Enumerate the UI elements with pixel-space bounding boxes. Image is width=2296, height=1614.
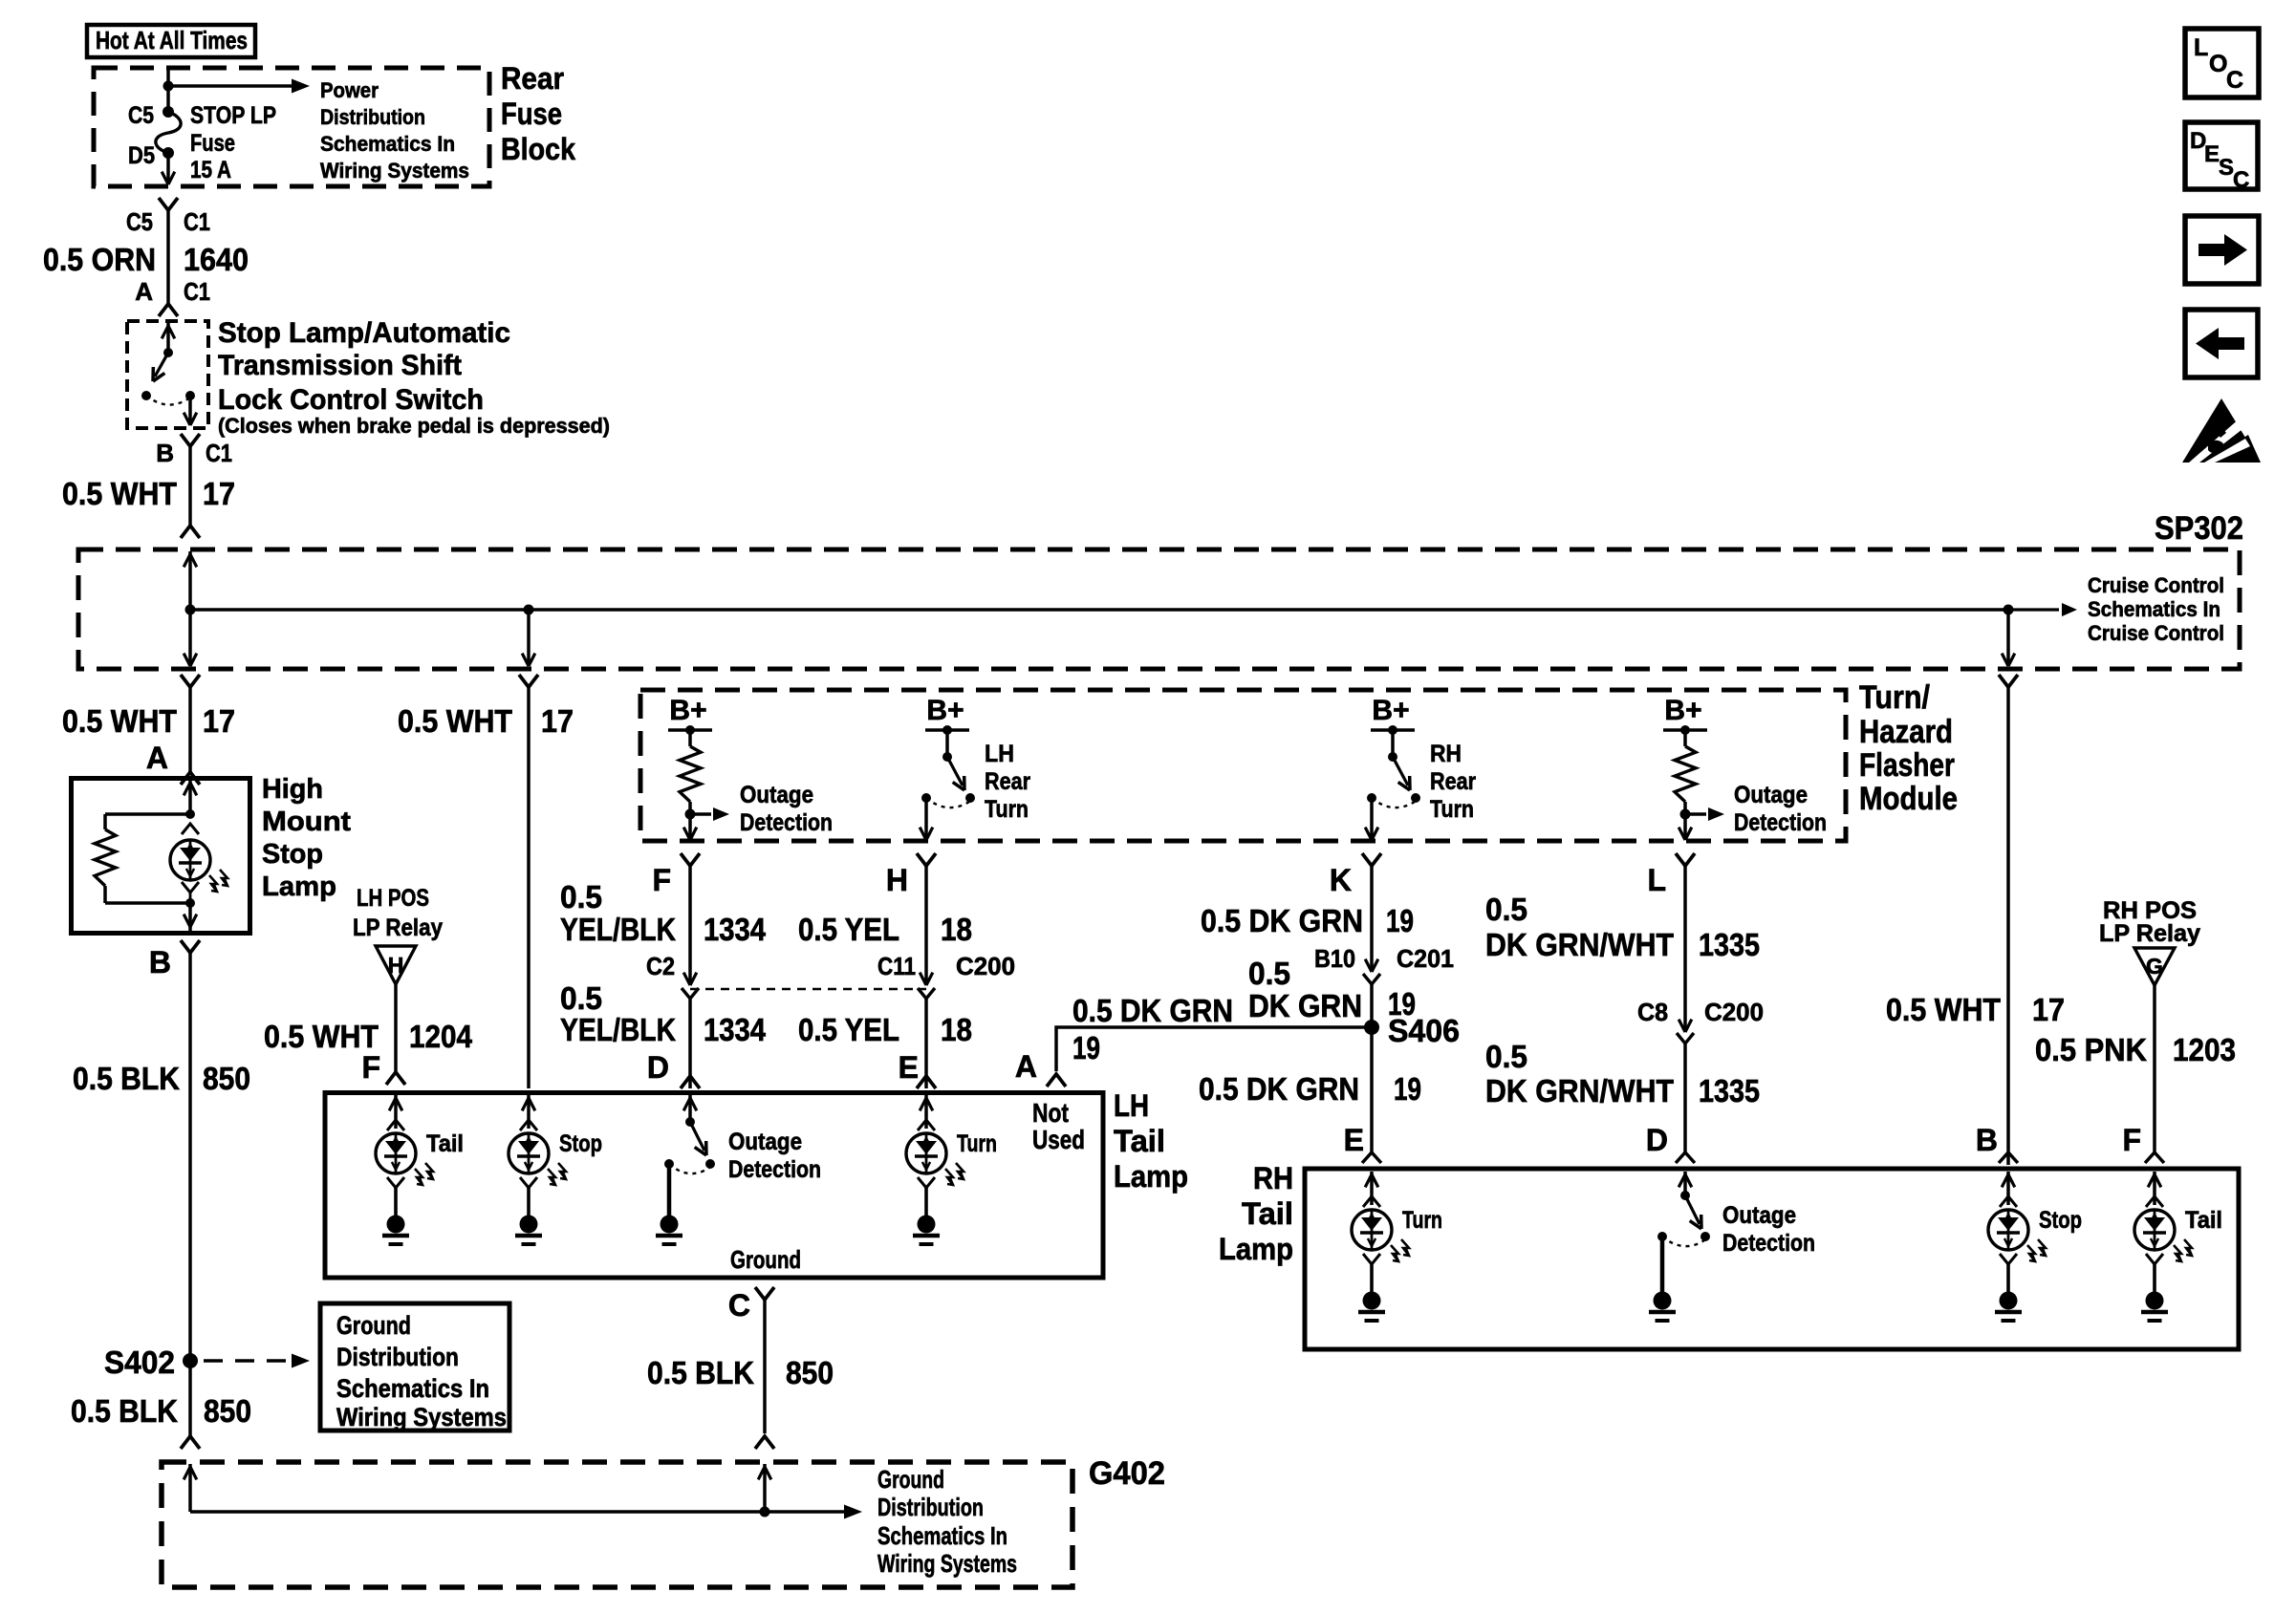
connector module pin L — [1676, 853, 1695, 866]
svg-text:B: B — [1976, 1123, 1998, 1157]
wire: SP302 to LH stop bulb — [527, 687, 531, 1088]
connector pin A high mount lamp — [181, 772, 200, 785]
connector C200 (vee half) — [682, 988, 699, 999]
bulb socket connector (Tail) — [387, 1120, 404, 1130]
wire: junction to fuse C5 — [166, 86, 170, 109]
svg-text:C5: C5 — [128, 102, 154, 129]
wire: C200 to LH lamp pin D — [688, 999, 692, 1088]
wire: SP302 to high mount stop lamp — [188, 687, 192, 772]
ground (LH Turn) — [918, 1216, 936, 1234]
svg-text:Hot At All Times: Hot At All Times — [96, 26, 248, 54]
svg-text:LH: LH — [985, 741, 1014, 767]
wire: switch to SP302 — [188, 446, 192, 526]
svg-text:K: K — [1330, 863, 1352, 897]
svg-text:C11: C11 — [877, 952, 916, 980]
svg-text:Rear: Rear — [501, 61, 564, 96]
svg-text:SP302: SP302 — [2155, 510, 2243, 547]
svg-text:19: 19 — [1072, 1030, 1100, 1065]
svg-text:Distribution: Distribution — [877, 1493, 984, 1521]
svg-text:Turn: Turn — [1430, 796, 1474, 823]
node lamp bottom junction — [185, 898, 195, 908]
svg-text:E: E — [2204, 141, 2220, 167]
svg-text:H: H — [886, 863, 908, 897]
svg-text:0.5: 0.5 — [1248, 956, 1290, 991]
connector pin B below lamp — [181, 940, 200, 953]
svg-text:Detection: Detection — [740, 809, 833, 836]
svg-text:Ground: Ground — [730, 1245, 801, 1274]
svg-text:Outage: Outage — [740, 782, 813, 808]
wire: switch output — [188, 396, 192, 424]
svg-text:0.5 PNK: 0.5 PNK — [2035, 1032, 2147, 1067]
junction dot fuse feed — [163, 81, 174, 92]
svg-text:B: B — [156, 439, 174, 467]
svg-text:C2: C2 — [646, 952, 675, 980]
svg-text:850: 850 — [203, 1061, 250, 1096]
svg-text:Ground: Ground — [336, 1311, 411, 1340]
wire: lamp feed inside — [188, 781, 192, 811]
LH outage switch arm — [690, 1122, 704, 1151]
svg-text:Turn: Turn — [985, 796, 1029, 823]
svg-text:O: O — [2209, 51, 2227, 77]
arrow: to Cruise Control schematics — [2008, 608, 2059, 611]
svg-text:Tail: Tail — [1242, 1196, 1293, 1231]
high mount stop lamp box — [72, 779, 250, 934]
svg-text:17: 17 — [541, 703, 574, 739]
svg-text:0.5 ORN: 0.5 ORN — [43, 242, 156, 277]
wire: S406 branch to LH pin A — [1056, 1027, 1372, 1071]
svg-text:RH: RH — [1253, 1161, 1293, 1195]
wire: high mount lamp to S402 — [188, 953, 192, 1361]
svg-text:B10: B10 — [1314, 944, 1355, 973]
connector below SP302 mid — [519, 675, 538, 687]
icon: ESD sensitive device triangle — [2182, 398, 2261, 463]
svg-text:C: C — [2226, 67, 2243, 94]
svg-text:15 A: 15 A — [190, 157, 231, 183]
connector below SP302 right — [1999, 675, 2018, 687]
svg-text:0.5 BLK: 0.5 BLK — [73, 1061, 180, 1096]
wire: pin into LH Stop bulb — [527, 1095, 531, 1129]
node G402 junction — [760, 1507, 770, 1517]
svg-text:C1: C1 — [184, 277, 210, 306]
wire: pin D into RH outage switch — [1683, 1172, 1687, 1193]
svg-text:19: 19 — [1386, 903, 1414, 938]
RH rear turn switch pivot dot — [1388, 752, 1397, 762]
svg-text:Tail: Tail — [426, 1130, 464, 1157]
wire: LH turn to module pin H — [924, 798, 928, 838]
wire: SP302 to RH stop bulb — [2006, 687, 2010, 1165]
resistor LH outage detection — [680, 746, 701, 802]
svg-text:Schematics In: Schematics In — [2088, 597, 2220, 621]
svg-text:0.5 DK GRN: 0.5 DK GRN — [1072, 993, 1233, 1028]
connector pin B RH tail lamp — [1999, 1152, 2018, 1163]
dashed arrow: S402 to ground distribution box — [204, 1359, 287, 1362]
svg-text:Tail: Tail — [1114, 1124, 1165, 1158]
svg-text:850: 850 — [204, 1393, 251, 1429]
connector B10/C201 (arrow half) — [1372, 959, 1378, 972]
svg-text:Stop: Stop — [262, 839, 323, 870]
wire: SP302 right drop — [2006, 610, 2010, 666]
switch closed-position dashed arc — [146, 396, 190, 405]
bulb socket connector (RH Turn) — [1363, 1196, 1380, 1207]
wire: pin into LH Turn bulb — [924, 1095, 928, 1129]
ground (RH Tail) — [2146, 1292, 2164, 1310]
wire: S402 to G402 — [188, 1361, 192, 1436]
svg-text:0.5 YEL: 0.5 YEL — [798, 912, 899, 947]
bulb socket connector bottom (Turn) — [918, 1177, 935, 1188]
svg-text:1334: 1334 — [704, 912, 767, 947]
connector C200 dashed tie line — [690, 988, 926, 990]
svg-text:C1: C1 — [184, 207, 210, 236]
LH outage switch pivot dot — [685, 1117, 695, 1127]
RH turn switch dashed arc — [1372, 798, 1415, 807]
svg-text:Lamp: Lamp — [1219, 1232, 1293, 1266]
bulb socket connector bottom (Stop) — [520, 1177, 537, 1188]
svg-text:L: L — [1647, 863, 1666, 897]
svg-text:Outage: Outage — [728, 1129, 802, 1155]
LH rear turn switch pivot dot — [942, 752, 952, 762]
wire: left lead into G402 — [188, 1464, 192, 1512]
svg-text:C: C — [2233, 167, 2249, 193]
svg-text:Detection: Detection — [1722, 1230, 1815, 1257]
svg-text:A: A — [1015, 1049, 1037, 1084]
LH turn switch dashed arc — [926, 798, 969, 807]
wire: SP302 bus — [190, 608, 2008, 612]
svg-text:0.5 WHT: 0.5 WHT — [264, 1019, 379, 1054]
svg-text:0.5 BLK: 0.5 BLK — [647, 1355, 754, 1390]
svg-text:0.5 DK GRN: 0.5 DK GRN — [1199, 1071, 1359, 1107]
LH rear turn switch contacts — [965, 793, 975, 803]
svg-text:0.5 WHT: 0.5 WHT — [398, 703, 512, 739]
svg-text:Block: Block — [501, 132, 575, 166]
wire: module F to C2 — [688, 866, 692, 982]
connector pin D RH tail lamp — [1676, 1152, 1695, 1163]
wire: resistor to bottom junction — [105, 901, 190, 905]
wire: LH lamp ground lead — [763, 1300, 767, 1433]
connector pin F LH tail lamp — [386, 1072, 405, 1085]
svg-text:E: E — [1344, 1123, 1364, 1157]
resistor RH outage detection — [1675, 746, 1696, 802]
svg-text:E: E — [899, 1050, 919, 1085]
splice S402 — [183, 1353, 198, 1368]
svg-text:YEL/BLK: YEL/BLK — [560, 1012, 676, 1047]
svg-text:S: S — [2219, 155, 2234, 181]
svg-text:Stop: Stop — [559, 1130, 602, 1157]
bulb socket connector bottom — [182, 882, 199, 893]
svg-text:Wiring Systems: Wiring Systems — [336, 1403, 507, 1431]
wire: relay to RH tail lamp pin F — [2153, 985, 2156, 1152]
svg-text:YEL/BLK: YEL/BLK — [560, 912, 676, 947]
RH outage switch dashed arc — [1662, 1237, 1704, 1246]
connector pin E RH tail lamp — [1362, 1152, 1381, 1163]
arrow: to Power Distribution Schematics — [168, 84, 292, 87]
wire: SP302 left drop — [188, 610, 192, 666]
svg-text:LP Relay: LP Relay — [2099, 920, 2200, 947]
arrow: LH outage detection signal — [690, 812, 711, 815]
switch arm (open, arrow down-left) — [155, 353, 168, 377]
svg-text:1335: 1335 — [1699, 927, 1760, 962]
wire: RH outage to module pin L — [1683, 814, 1687, 838]
svg-text:Lock Control Switch: Lock Control Switch — [218, 384, 484, 416]
RH outage switch contacts — [1700, 1232, 1710, 1241]
stop lamp switch dashed box — [127, 321, 208, 428]
wire: resistor to junction — [1683, 802, 1687, 814]
svg-text:Outage: Outage — [1722, 1202, 1796, 1229]
icon: back arrow box — [2185, 310, 2258, 377]
svg-text:Cruise Control: Cruise Control — [2088, 573, 2224, 597]
svg-text:18: 18 — [941, 912, 972, 947]
svg-text:D5: D5 — [128, 142, 155, 169]
svg-text:Detection: Detection — [1734, 809, 1827, 836]
svg-text:Hazard: Hazard — [1859, 714, 1953, 750]
svg-text:G402: G402 — [1089, 1455, 1165, 1492]
bulb socket connector bottom (RH Turn) — [1363, 1254, 1380, 1264]
svg-text:0.5 WHT: 0.5 WHT — [62, 703, 177, 739]
svg-text:B+: B+ — [1372, 695, 1409, 726]
svg-text:0.5 DK GRN: 0.5 DK GRN — [1201, 903, 1363, 938]
svg-text:1204: 1204 — [409, 1019, 473, 1054]
svg-text:Rear: Rear — [985, 768, 1030, 795]
connector C200 (vee half) — [1677, 1033, 1694, 1044]
LH Turn bulb — [906, 1133, 946, 1173]
bulb socket connector (RH Stop) — [2000, 1196, 2017, 1207]
svg-text:Lamp: Lamp — [1114, 1159, 1188, 1194]
connector pin F RH tail lamp — [2145, 1152, 2164, 1163]
wire: S406 to RH lamp pin E — [1370, 1027, 1374, 1152]
icon: DESC box — [2185, 122, 2258, 189]
ground (LH outage) — [661, 1216, 679, 1234]
arrow: RH outage detection signal — [1685, 812, 1706, 815]
splice pack SP302 dashed box — [78, 549, 2240, 669]
svg-text:Transmission Shift: Transmission Shift — [218, 350, 462, 381]
ground distribution reference box — [320, 1303, 509, 1431]
wire: RH turn to module pin K — [1370, 798, 1374, 838]
switch pivot dot — [163, 348, 173, 357]
svg-text:Outage: Outage — [1734, 782, 1808, 808]
bulb socket connector (RH Tail) — [2146, 1196, 2163, 1207]
svg-text:High: High — [262, 774, 323, 805]
wire: RH Stop bulb to ground — [2006, 1264, 2010, 1292]
svg-text:17: 17 — [203, 703, 235, 739]
svg-text:Wiring Systems: Wiring Systems — [320, 159, 469, 183]
wire: C201 to S406 — [1370, 984, 1374, 1027]
svg-text:Detection: Detection — [728, 1156, 821, 1183]
high mount stop lamp bulb — [170, 840, 210, 880]
connector into G402 (mid) — [755, 1436, 774, 1449]
LH Stop bulb — [509, 1133, 549, 1173]
connector C1 pin C5 (female half) — [159, 198, 178, 210]
connector pin C below LH lamp — [755, 1287, 774, 1300]
resistor (shunt) — [103, 814, 107, 829]
wire: lamp to box edge — [188, 903, 192, 931]
wire: LH Stop bulb to ground — [527, 1188, 531, 1216]
svg-text:F: F — [2122, 1123, 2141, 1157]
LH outage switch dashed arc — [669, 1164, 709, 1173]
svg-text:850: 850 — [786, 1355, 834, 1390]
svg-text:1640: 1640 — [184, 242, 249, 277]
connector pin D LH tail lamp — [681, 1076, 700, 1088]
wire: fuse block to switch — [166, 210, 170, 304]
svg-text:LP Relay: LP Relay — [353, 915, 443, 941]
RH rear turn switch arm — [1393, 757, 1408, 785]
svg-text:S406: S406 — [1388, 1013, 1460, 1048]
svg-text:17: 17 — [203, 476, 235, 511]
LH tail lamp box — [325, 1093, 1103, 1279]
svg-text:B: B — [149, 945, 171, 979]
ground (RH Turn) — [1363, 1292, 1381, 1310]
svg-text:F: F — [361, 1050, 380, 1085]
RH Stop bulb — [1988, 1210, 2028, 1250]
svg-text:A: A — [146, 741, 168, 775]
svg-text:Rear: Rear — [1430, 768, 1476, 795]
wire: B+ to RH turn switch pivot — [1391, 730, 1395, 754]
svg-text:Fuse: Fuse — [501, 97, 562, 131]
wire: module K to B10 — [1370, 866, 1374, 969]
wire: B+ to RH outage resistor — [1683, 730, 1687, 746]
connector module pin K — [1362, 853, 1381, 866]
wire: pin into RH Turn bulb — [1370, 1172, 1374, 1205]
svg-text:Distribution: Distribution — [336, 1343, 459, 1371]
wire: LH outage to module pin F — [688, 814, 692, 838]
svg-text:LH POS: LH POS — [357, 885, 429, 912]
svg-text:C200: C200 — [1704, 998, 1764, 1026]
icon: forward arrow box — [2185, 216, 2259, 284]
svg-text:B+: B+ — [926, 695, 964, 726]
wire: C lead into G402 — [763, 1464, 767, 1512]
svg-text:Fuse: Fuse — [190, 130, 235, 157]
svg-text:Not: Not — [1032, 1098, 1069, 1128]
svg-text:D: D — [1646, 1123, 1668, 1157]
wire: SP302 mid drop — [527, 610, 531, 666]
splice S406 — [1364, 1020, 1379, 1035]
connector module pin F — [681, 853, 700, 866]
svg-text:Module: Module — [1859, 781, 1958, 817]
connector below SP302 left — [181, 675, 200, 687]
svg-text:Schematics In: Schematics In — [320, 132, 455, 156]
bulb socket connector top — [182, 824, 199, 834]
connector C1 pin B (female half) — [181, 434, 200, 446]
svg-text:Cruise Control: Cruise Control — [2088, 621, 2224, 645]
svg-text:C201: C201 — [1397, 944, 1454, 973]
wire: LH Tail bulb to ground — [394, 1188, 398, 1216]
connector (male half) into SP302 — [181, 526, 200, 538]
wire: B+ to LH turn switch pivot — [945, 730, 949, 754]
svg-text:DK GRN: DK GRN — [1248, 988, 1362, 1023]
svg-text:DK GRN/WHT: DK GRN/WHT — [1485, 927, 1674, 962]
wire: module H to C11 — [924, 866, 928, 982]
wire: pin into LH Tail bulb — [394, 1095, 398, 1129]
svg-text:Tail: Tail — [2185, 1207, 2222, 1234]
svg-text:19: 19 — [1394, 1071, 1421, 1107]
svg-text:DK GRN/WHT: DK GRN/WHT — [1485, 1073, 1674, 1108]
svg-text:Distribution: Distribution — [320, 105, 425, 129]
svg-text:(Closes when brake pedal is de: (Closes when brake pedal is depressed) — [218, 414, 610, 438]
node SP302 right junction — [2004, 605, 2014, 615]
RH Turn bulb — [1352, 1210, 1392, 1250]
wire: feed into fuse block — [166, 70, 170, 86]
wire: resistor to junction — [688, 802, 692, 814]
wire: branch to resistor — [105, 812, 190, 816]
connector C8/C200 (arrow half) — [1685, 1020, 1692, 1032]
svg-text:Stop: Stop — [2039, 1207, 2082, 1234]
svg-text:Stop Lamp/Automatic: Stop Lamp/Automatic — [218, 317, 510, 349]
svg-text:C5: C5 — [126, 207, 153, 236]
RH Tail bulb — [2134, 1210, 2175, 1250]
svg-text:F: F — [652, 863, 671, 897]
svg-text:C200: C200 — [956, 952, 1015, 980]
svg-text:Ground: Ground — [877, 1465, 944, 1494]
svg-text:C: C — [728, 1288, 750, 1323]
svg-text:1335: 1335 — [1699, 1073, 1760, 1108]
wire: pin into RH Tail bulb — [2153, 1172, 2156, 1205]
ground (LH Stop) — [520, 1216, 538, 1234]
switch contact dots — [141, 391, 151, 400]
turn/hazard flasher module dashed box — [640, 690, 1846, 841]
node SP302 mid junction — [524, 605, 534, 615]
arrow: to Ground Distribution Schematics — [844, 1505, 862, 1519]
svg-text:0.5: 0.5 — [1485, 1039, 1527, 1074]
RH tail lamp box — [1305, 1169, 2239, 1349]
svg-text:Schematics In: Schematics In — [336, 1374, 489, 1403]
wire: C200 to LH lamp pin E — [924, 999, 928, 1088]
svg-text:0.5: 0.5 — [560, 980, 602, 1016]
ground G402 dashed box — [162, 1462, 1072, 1587]
wire: LH Turn bulb to ground — [924, 1188, 928, 1216]
wire: pin D into LH outage switch — [688, 1095, 692, 1119]
svg-text:H: H — [388, 953, 404, 978]
node RH outage junction — [1680, 809, 1691, 820]
node lamp top junction — [185, 809, 195, 819]
svg-text:Turn/: Turn/ — [1859, 679, 1930, 716]
svg-text:0.5 WHT: 0.5 WHT — [62, 476, 177, 511]
svg-text:Turn: Turn — [957, 1130, 997, 1157]
svg-text:D: D — [647, 1050, 669, 1085]
wire: RH outage to ground — [1660, 1237, 1665, 1292]
ground (RH Stop) — [2000, 1292, 2018, 1310]
wire: B+ to resistor — [688, 730, 692, 746]
node SP302 left junction — [185, 605, 196, 615]
svg-text:L: L — [2194, 34, 2208, 61]
label box: Hot At All Times — [87, 25, 255, 57]
svg-text:RH: RH — [1430, 741, 1462, 767]
connector pin A LH tail lamp — [1047, 1074, 1066, 1087]
wire: pin into RH Stop bulb — [2006, 1172, 2010, 1205]
rear fuse block dashed box — [94, 68, 489, 186]
wire: into switch — [166, 323, 170, 350]
bulb socket connector bottom (RH Stop) — [2000, 1254, 2017, 1264]
wire: module L to C8 — [1683, 866, 1687, 1029]
wire: RH Tail bulb to ground — [2153, 1264, 2156, 1292]
svg-text:Schematics In: Schematics In — [877, 1521, 1007, 1550]
wire: RH Turn bulb to ground — [1370, 1264, 1374, 1292]
connector C11/C200 (arrow half) — [926, 973, 933, 985]
svg-text:Flasher: Flasher — [1859, 747, 1955, 784]
bulb socket connector bottom (Tail) — [387, 1177, 404, 1188]
connector C200 (vee half) — [918, 988, 935, 999]
svg-text:0.5 YEL: 0.5 YEL — [798, 1012, 899, 1047]
RH outage switch pivot dot — [1680, 1191, 1690, 1200]
wire: into SP302 — [188, 551, 192, 610]
fuse STOP LP 15A — [162, 106, 174, 118]
svg-text:LH: LH — [1114, 1088, 1149, 1123]
connector pin E LH tail lamp — [917, 1076, 936, 1088]
bulb socket connector (Stop) — [520, 1120, 537, 1130]
wire: G402 bus — [190, 1510, 845, 1514]
svg-text:S402: S402 — [104, 1345, 175, 1380]
svg-text:0.5: 0.5 — [1485, 892, 1527, 927]
svg-text:0.5 BLK: 0.5 BLK — [71, 1393, 178, 1429]
svg-text:Power: Power — [320, 78, 379, 102]
svg-text:G: G — [2146, 954, 2163, 979]
